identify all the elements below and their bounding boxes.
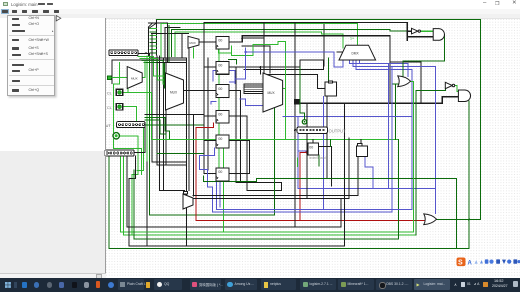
pin row P3: [109, 50, 138, 56]
register R6: [216, 168, 229, 181]
mux A output wire: [142, 61, 145, 78]
wire net F right vertical x481: [480, 20, 482, 220]
register R1: [216, 36, 229, 49]
black x323.3: [322, 60, 324, 69]
DMX blue out3 y69.5: [356, 60, 412, 210]
nest black y227.5: [127, 226, 341, 228]
mux A input staircase: [113, 63, 119, 133]
NOT U7 input net: [416, 86, 445, 235]
AND U4 input2: [407, 36, 433, 38]
AND U4: [433, 29, 444, 41]
NOT U7 output to AND U8: [455, 86, 459, 92]
DMX blue out2 branch x392: [391, 67, 393, 212]
reg R5 output wire: [229, 141, 250, 174]
item Print: [12, 70, 20, 72]
blue reg6 pins down: [217, 181, 220, 210]
row2 pin wire bright green x120.7: [120, 156, 122, 232]
NOT U3 output: [421, 30, 434, 32]
dark green staircase y120: [145, 120, 166, 140]
AND U4 output net: [403, 35, 445, 77]
output port feed: [295, 129, 297, 131]
wire y62: [390, 62, 421, 103]
bright green bus y139.5: [152, 139, 399, 141]
blue loop at reg R2: [213, 70, 235, 83]
reg R1 clock loop: [219, 46, 232, 53]
mux D: [183, 194, 193, 209]
AND U8 output down x469: [468, 101, 470, 249]
wire x407.2 vertical: [406, 23, 408, 41]
green vertical x143.6: [137, 128, 144, 171]
reg R1 output wire: [229, 23, 264, 75]
svg-text:S: S: [458, 259, 463, 266]
red error dot: [306, 151, 308, 153]
output port OUT1: [297, 127, 346, 134]
svg-text:00: 00: [218, 39, 222, 43]
splitter SP1 rail right: [156, 20, 158, 56]
mux E: [263, 73, 283, 112]
dark green long y178.3: [204, 178, 457, 248]
mux A: [127, 67, 142, 89]
black x112.2: [111, 60, 113, 84]
nest black jog x135.4-x129: [129, 156, 135, 246]
mux E select vertical dark green: [273, 108, 275, 215]
mux B staircase s2: [140, 59, 166, 81]
LED L1 wire bottom jog: [113, 139, 141, 174]
black x327: [326, 97, 328, 179]
input pin PIN1: [108, 76, 112, 80]
small junction box: [294, 99, 300, 105]
left panel bottom scrollbar: [0, 273, 106, 279]
blue from counter B2: [365, 157, 373, 189]
toolbar: [0, 14, 520, 18]
NOT U3: [412, 28, 421, 34]
LED L2: [302, 120, 306, 124]
dark green x330.5 stub: [330, 140, 332, 147]
mux E input ladder: [244, 84, 264, 94]
wire net F dark green top y19.5: [157, 19, 481, 21]
svg-text:MUX: MUX: [170, 91, 178, 95]
wire black ladder to MUX C1 input: [152, 33, 189, 35]
dark green staircase y117.5: [145, 118, 170, 140]
dark green x395.3: [393, 84, 398, 140]
taskbar: [0, 278, 520, 292]
svg-text:00: 00: [309, 145, 313, 149]
black y182.5: [236, 183, 282, 191]
item Preferences: [12, 80, 20, 82]
blue y188.6: [298, 117, 436, 189]
app buttons: [118, 279, 144, 290]
nest bottom dark green y249.5: [109, 248, 469, 250]
reg R7 output wire: [318, 147, 331, 187]
ladder fan diagonals: [149, 23, 157, 29]
OR U5: [398, 76, 411, 87]
dark green x398.4 down: [397, 140, 399, 240]
blue reg7 input: [298, 150, 308, 152]
wire bundle black x152 row1 chain: [152, 34, 186, 163]
OR U6: [424, 214, 437, 225]
wire ladder fan y23: [149, 22, 168, 24]
separator: [9, 34, 54, 37]
bundle black x193.4: [192, 115, 194, 197]
mux E output: [283, 88, 286, 90]
title bar: [0, 0, 520, 9]
separator: [9, 58, 54, 61]
tool edit arrow: [55, 15, 62, 22]
mux A select stub: [127, 89, 129, 92]
blue staircase from reg5: [200, 148, 215, 212]
wire green y23.3 to DMX select: [161, 23, 357, 58]
reg R1 input from mux C1: [198, 41, 216, 43]
LED L1: [113, 133, 119, 139]
reg R4 output wire: [229, 116, 282, 191]
menu Simulate: [32, 10, 38, 12]
svg-text:CL: CL: [107, 105, 113, 110]
reg input junction dots: [215, 41, 217, 175]
nest corner x344.5: [344, 104, 346, 246]
register R5: [216, 135, 229, 148]
blue net y52: [235, 48, 343, 106]
black y62.5: [157, 62, 186, 64]
input pin PIN1 wire: [111, 77, 127, 79]
clock CL1: [107, 89, 123, 95]
row2 pin wire dark green x109: [108, 156, 110, 249]
enable chain x223.7: [223, 148, 225, 232]
item Recent projects: [12, 30, 25, 32]
register R3: [216, 85, 229, 98]
wire bundle green x147 upper: [146, 56, 148, 162]
svg-text:A: A: [468, 260, 473, 266]
svg-text:00: 00: [218, 64, 222, 68]
svg-text:00: 00: [218, 170, 222, 174]
bundle black x208: [207, 58, 209, 170]
menu Help: [54, 10, 60, 12]
register R2: [216, 61, 229, 74]
wire fan x167.5: [167, 23, 169, 62]
thick bus y35.7: [242, 36, 390, 103]
row1 output chain: [134, 128, 145, 153]
svg-text:1+: 1+: [350, 37, 354, 41]
bundle black x186.3: [185, 58, 187, 246]
bundle black x189: [188, 46, 190, 191]
wire green ladder pair x169: [168, 26, 170, 63]
DMX: [339, 37, 376, 61]
mux D output wires: [193, 157, 358, 196]
splitter handle: [104, 150, 107, 156]
clock CL2: [107, 104, 123, 110]
svg-text:MUX: MUX: [190, 41, 196, 45]
reg R7 bottom pins: [318, 155, 320, 166]
menu Project: [22, 10, 28, 12]
wire black y22.5 top right: [204, 22, 407, 24]
mux B output: [184, 89, 205, 91]
DMX blue out1 y63.5: [349, 60, 408, 77]
mux B staircase s3: [142, 61, 166, 85]
DMX blue out1 branch x388.3: [387, 64, 389, 189]
svg-text:CL: CL: [107, 91, 113, 96]
left panel lower: [0, 19, 106, 273]
register R4: [216, 110, 229, 123]
item Close: [12, 39, 19, 41]
svg-text:00: 00: [218, 87, 222, 91]
black y114.5: [145, 114, 204, 116]
blue bottom y211.8: [213, 211, 392, 213]
counter B2 top pin: [360, 140, 362, 144]
reg R2 input: [204, 66, 216, 68]
splitter SP1 rungs: [150, 29, 157, 53]
watermark logo: [451, 254, 520, 264]
mux A staircase s1: [138, 57, 166, 77]
bus x295 vertical: [294, 23, 296, 227]
black y46 corner: [242, 46, 270, 73]
junction dot: [145, 52, 147, 54]
clock CL1 wire: [123, 92, 152, 139]
item Save: [12, 47, 19, 49]
clock CL2 wire: [123, 107, 137, 124]
black y60: [112, 59, 186, 61]
svg-text:OUTPUT: OUTPUT: [329, 128, 347, 133]
menu bar: [0, 9, 520, 15]
splitter SP1 rail left: [148, 27, 150, 56]
blue from box B1: [323, 97, 325, 210]
start button: [5, 282, 11, 288]
mux B: [166, 73, 184, 110]
clock chain green x218.8: [218, 49, 220, 168]
item Open: [12, 24, 21, 26]
pin row P3 output wire: [138, 53, 186, 58]
item Save As: [12, 54, 22, 56]
separator: [9, 84, 54, 87]
window buttons: [483, 0, 486, 6]
menu Window: [43, 10, 49, 12]
mux B staircase s4: [144, 63, 166, 89]
blue bottom y209.5: [217, 209, 412, 211]
NOT U7: [445, 82, 454, 88]
blue y116.6: [283, 116, 412, 118]
svg-text:00: 00: [218, 113, 222, 117]
LED L2 feed: [300, 67, 305, 120]
reg R7 top pin: [312, 140, 314, 144]
mux C select green: [192, 48, 194, 58]
wire dark green y29 to NOT U3: [172, 29, 412, 56]
NOT U3 input stub: [407, 30, 411, 32]
menu File highlighted: [1, 9, 9, 14]
svg-text:lederBoard: lederBoard: [309, 156, 326, 160]
dark green y239: [134, 238, 398, 240]
dark green y124.8: [145, 124, 204, 126]
black vertical x307: [306, 104, 308, 199]
reg R6 output wire: [229, 173, 250, 175]
item New: [12, 18, 19, 20]
LED L1 wire right: [120, 136, 139, 235]
item Exit: [12, 89, 19, 91]
red net reg4 to OR gate U6: [196, 123, 424, 221]
reg R4 input: [204, 115, 216, 117]
wire bundle black x147 lower: [146, 162, 148, 246]
menu Edit: [12, 10, 18, 12]
nest corner x341: [340, 199, 342, 227]
wire bundle black x166: [165, 58, 167, 165]
item Export image: [12, 64, 24, 66]
svg-text:MUX: MUX: [131, 77, 138, 81]
OR U5 output net: [411, 81, 414, 232]
wire bundle black x157: [157, 56, 186, 165]
register R7: [308, 143, 326, 160]
dropdown File menu: [7, 15, 55, 96]
separator: [9, 74, 54, 77]
AND U8: [458, 90, 470, 102]
mux C1: [188, 36, 199, 48]
reg R6 input: [204, 173, 216, 175]
app icon: [3, 2, 8, 6]
dark green stub y59.6: [229, 60, 237, 64]
input row P1: [117, 122, 145, 128]
reg R3 output wire: [229, 90, 241, 182]
black into DMX slant: [337, 51, 348, 53]
svg-text:DMX: DMX: [352, 52, 360, 56]
wire bundle black x159.5 mux D feed: [160, 56, 185, 194]
wire bundle black x163.3: [162, 58, 164, 191]
box B1: [325, 82, 337, 96]
reg R5 input: [204, 140, 216, 142]
OR U6 output to feedback: [437, 219, 481, 221]
black y69.7: [244, 69, 323, 71]
red net reg7: [300, 152, 307, 220]
svg-text:00: 00: [218, 137, 222, 141]
junction dot: [241, 37, 243, 39]
wire black short x165: [165, 27, 180, 58]
reg R2 output wire: [229, 60, 323, 67]
nest bright green y233: [121, 231, 414, 233]
wire bright green y31 jog to DMX enable: [175, 32, 343, 57]
register column input trunk x204: [203, 23, 205, 174]
reg R3 input: [204, 89, 216, 91]
bus corner x242.2: [241, 36, 243, 42]
wire bundle dark green x149.5 nest: [150, 56, 275, 215]
nest black y241.8: [129, 245, 345, 247]
nest bright green y236: [123, 234, 416, 236]
svg-text:MUX: MUX: [268, 91, 276, 95]
clock staircase to x285.5: [231, 42, 285, 140]
DMX blue out2 y66.5: [353, 60, 436, 214]
input row P2: [105, 150, 135, 156]
blue stub reg R3: [211, 102, 216, 105]
wire box B1 feed x324: [323, 23, 325, 67]
tray: [454, 282, 457, 287]
counter B2: [356, 144, 367, 157]
registers R1-R6: [216, 36, 229, 181]
row2 pin wire black x127: [126, 156, 128, 227]
